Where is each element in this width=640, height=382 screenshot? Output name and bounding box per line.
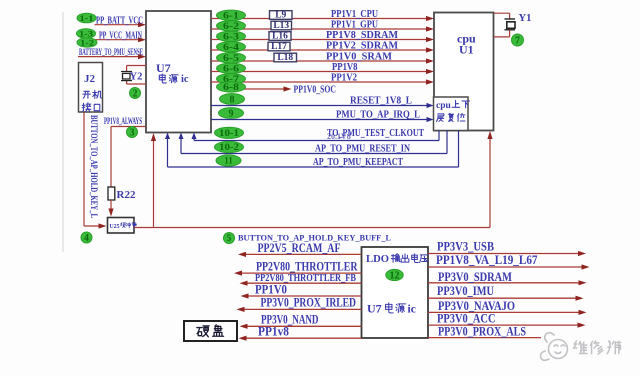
watermark text bbox=[573, 341, 587, 354]
node 9 bbox=[219, 108, 244, 119]
wire PP2V80_THROTTLER bbox=[240, 272, 362, 274]
wire PP3V0_ACC bbox=[428, 324, 580, 326]
svg-text:PP1V2: PP1V2 bbox=[331, 71, 357, 83]
wire BUTTON_TO_AP_HOLD_KEY_L bbox=[83, 113, 85, 227]
wire PP3V0_SDRAM bbox=[428, 282, 581, 284]
wire PP3V0_IMU bbox=[428, 297, 578, 299]
svg-text:L17: L17 bbox=[271, 42, 287, 52]
wire PP1V2 bbox=[211, 81, 429, 83]
svg-text:8: 8 bbox=[230, 95, 235, 106]
wire PP1V0_SOC bbox=[237, 88, 286, 90]
svg-text:11: 11 bbox=[224, 156, 233, 166]
wire PP3V3_USB bbox=[428, 253, 580, 255]
wire PMU_TO_AP_IRQ_L bbox=[211, 119, 429, 121]
wire PP1V2_SDRAM bbox=[211, 49, 429, 51]
node 6-5 bbox=[217, 53, 246, 63]
svg-text:PP2V5_RCAM_AF: PP2V5_RCAM_AF bbox=[258, 241, 341, 255]
crystal Y2 bbox=[127, 65, 146, 67]
wire PP1V1_CPU bbox=[211, 18, 429, 20]
svg-text:Y2: Y2 bbox=[130, 72, 143, 83]
wire U7 ALWAYS feed bbox=[153, 137, 155, 228]
node 6-8 bbox=[217, 82, 246, 92]
svg-text:6-8: 6-8 bbox=[223, 82, 240, 92]
svg-text:6-2: 6-2 bbox=[223, 21, 240, 31]
cpu U1 bbox=[434, 13, 494, 131]
svg-text:20.1V8: 20.1V8 bbox=[327, 132, 351, 141]
wire TO_PMU_TEST_CLKOUT bbox=[194, 140, 439, 142]
node 1-3 PP_VCC_MAIN bbox=[95, 39, 141, 41]
crystal Y1 bbox=[494, 12, 510, 14]
svg-text:J2: J2 bbox=[84, 73, 96, 85]
svg-text:12: 12 bbox=[390, 271, 400, 282]
node 1-2 BATTERY_TO_PMU_SENSE bbox=[77, 38, 97, 47]
svg-text:1-1: 1-1 bbox=[80, 14, 94, 23]
svg-text:PP3V0_PROX_IRLED: PP3V0_PROX_IRLED bbox=[261, 296, 357, 310]
node 6-7 bbox=[217, 74, 246, 84]
node 4 bbox=[81, 232, 92, 243]
svg-text:U1: U1 bbox=[459, 43, 474, 57]
svg-text:L9: L9 bbox=[275, 10, 286, 20]
LDO block U7 bbox=[362, 247, 429, 338]
svg-text:6-1: 6-1 bbox=[223, 11, 240, 21]
wire PP3V0_NAVAJO bbox=[428, 311, 581, 313]
node 10-2 bbox=[215, 141, 244, 152]
hard disk box bbox=[184, 321, 237, 341]
svg-text:5: 5 bbox=[227, 233, 232, 243]
wire PP3V0_NAND bbox=[246, 325, 362, 327]
buffer U25 bbox=[108, 218, 135, 234]
svg-text:AP_TO_PMU_KEEPACT: AP_TO_PMU_KEEPACT bbox=[313, 157, 403, 168]
svg-text:1-3: 1-3 bbox=[79, 29, 93, 38]
inductor L17 bbox=[268, 42, 290, 51]
svg-text:PP3V0_SDRAM: PP3V0_SDRAM bbox=[438, 270, 512, 284]
svg-text:cpu: cpu bbox=[436, 101, 452, 111]
node 6-1 bbox=[217, 10, 246, 20]
inductor L13 bbox=[271, 21, 292, 30]
svg-text:PP3V0_PROX_ALS: PP3V0_PROX_ALS bbox=[438, 324, 526, 338]
node 6-2 bbox=[217, 21, 246, 31]
svg-text:U7: U7 bbox=[367, 302, 382, 316]
node 6-3 bbox=[217, 31, 246, 41]
diagram area edge bbox=[62, 12, 64, 252]
wire PP1v8 bbox=[245, 337, 362, 339]
node 6-6 bbox=[217, 63, 246, 73]
svg-text:6-5: 6-5 bbox=[223, 53, 240, 63]
svg-text:Y1: Y1 bbox=[519, 13, 532, 24]
node 10-1 bbox=[215, 127, 244, 138]
svg-text:3: 3 bbox=[130, 128, 135, 139]
node 11 bbox=[216, 155, 241, 166]
wire AP_TO_PMU_RESET_IN bbox=[181, 153, 447, 155]
connector J2 bbox=[79, 63, 103, 113]
node 12 bbox=[386, 269, 403, 280]
wire PP1V8_SDRAM bbox=[211, 39, 429, 41]
node 3 bbox=[127, 127, 138, 138]
svg-text:L18: L18 bbox=[277, 53, 293, 63]
wire AP_TO_PMU_KEEPACT bbox=[168, 166, 459, 168]
svg-text:RESET_1V8_L: RESET_1V8_L bbox=[350, 96, 412, 107]
svg-text:10-2: 10-2 bbox=[219, 142, 240, 152]
svg-text:7: 7 bbox=[515, 36, 520, 47]
svg-text:6-6: 6-6 bbox=[223, 64, 240, 74]
svg-text:PP_VCC_MAIN: PP_VCC_MAIN bbox=[99, 31, 142, 42]
svg-text:PP1V8_VA_L19_L67: PP1V8_VA_L19_L67 bbox=[436, 253, 538, 267]
svg-text:ic: ic bbox=[408, 304, 416, 316]
svg-text:PMU_TO_AP_IRQ_L: PMU_TO_AP_IRQ_L bbox=[336, 110, 420, 121]
svg-text:PP1V8_ALWAYS: PP1V8_ALWAYS bbox=[104, 116, 142, 126]
svg-text:PP_BATT_VCC: PP_BATT_VCC bbox=[96, 16, 143, 27]
node 5 label bbox=[224, 233, 235, 244]
watermark lion logo bbox=[541, 333, 568, 361]
node 7 bbox=[512, 34, 524, 46]
svg-text:PP3V3_USB: PP3V3_USB bbox=[437, 240, 494, 254]
svg-text:PP1V0: PP1V0 bbox=[255, 283, 287, 297]
wire PP1V8_VA_L19_L67 bbox=[428, 266, 584, 268]
node 2 bbox=[130, 88, 141, 99]
svg-text:4: 4 bbox=[84, 233, 89, 244]
inductor L16 bbox=[269, 32, 291, 41]
svg-text:10-1: 10-1 bbox=[219, 128, 240, 138]
svg-text:L13: L13 bbox=[273, 21, 289, 31]
svg-text:U7: U7 bbox=[156, 61, 171, 75]
node 1-1 PP_BATT_VCC bbox=[95, 24, 142, 26]
wire PP3V0_PROX_IRLED bbox=[243, 308, 362, 310]
wire BUTTON_TO_AP_HOLD_KEY_BUFF_L bbox=[134, 227, 490, 229]
inductor L18 bbox=[274, 53, 297, 62]
svg-text:PP1v8: PP1v8 bbox=[258, 325, 289, 339]
svg-text:AP_TO_PMU_RESET_IN: AP_TO_PMU_RESET_IN bbox=[315, 144, 410, 155]
node 8 bbox=[220, 94, 245, 105]
inductor L9 bbox=[270, 11, 293, 20]
svg-text:U25: U25 bbox=[110, 224, 120, 230]
svg-text:PP3V0_IMU: PP3V0_IMU bbox=[437, 284, 494, 298]
svg-text:BUTTON_TO_AP_HOLD_KEY_L: BUTTON_TO_AP_HOLD_KEY_L bbox=[89, 115, 99, 218]
reset box cpu bbox=[434, 97, 469, 131]
svg-text:R22: R22 bbox=[117, 189, 136, 201]
wire PP1V8 bbox=[211, 71, 429, 73]
svg-text:9: 9 bbox=[229, 109, 234, 120]
svg-text:6-3: 6-3 bbox=[223, 32, 240, 42]
svg-text:2: 2 bbox=[133, 89, 138, 100]
resistor R22 bbox=[108, 187, 115, 200]
wire PP3V0_PROX_ALS bbox=[428, 337, 541, 339]
wire PP1V1_GPU bbox=[211, 28, 429, 30]
svg-text:L16: L16 bbox=[272, 31, 288, 41]
svg-text:ic: ic bbox=[181, 74, 189, 85]
wire PP2V5_RCAM_AF bbox=[244, 253, 362, 255]
node 6-4 bbox=[217, 42, 246, 52]
svg-text:1-2: 1-2 bbox=[80, 38, 94, 47]
svg-text:6-4: 6-4 bbox=[223, 42, 240, 52]
wire RESET_1V8_L bbox=[211, 105, 429, 107]
svg-text:PP1V0_SOC: PP1V0_SOC bbox=[294, 84, 337, 96]
wire PP1V0 bbox=[247, 295, 362, 297]
svg-text:LDO: LDO bbox=[366, 253, 389, 265]
wire PP2V80_THROTTLER_FB bbox=[246, 282, 362, 284]
wire PP1V0_SRAM bbox=[211, 60, 429, 62]
power IC U7 bbox=[146, 11, 211, 133]
